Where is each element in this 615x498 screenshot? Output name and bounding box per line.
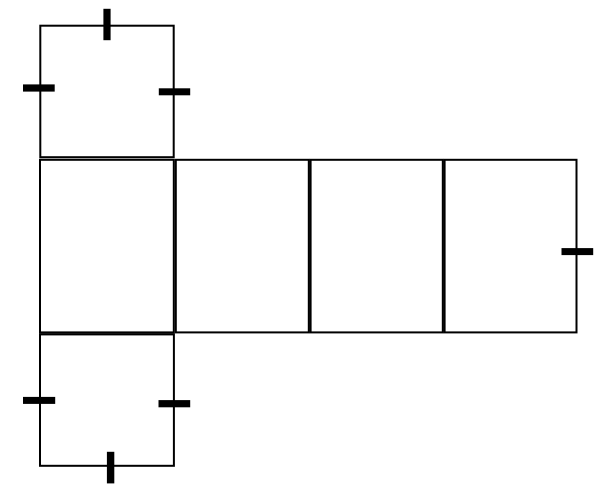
tick mark right edge of top square xyxy=(159,88,190,95)
tick mark left edge of bottom square xyxy=(23,397,55,404)
face middle square 1 xyxy=(40,160,174,333)
face middle square 3 xyxy=(311,160,443,333)
face middle square 2 xyxy=(176,160,309,333)
face middle square 4 xyxy=(445,160,577,333)
face top square xyxy=(40,26,173,158)
face bottom square xyxy=(40,334,174,465)
tick mark bottom edge of bottom square xyxy=(107,452,114,484)
tick mark top edge of top square xyxy=(103,9,110,40)
tick mark right edge of bottom square xyxy=(159,400,191,407)
tick mark right edge of middle square 4 xyxy=(562,248,594,255)
tick mark left edge of top square xyxy=(23,84,55,91)
